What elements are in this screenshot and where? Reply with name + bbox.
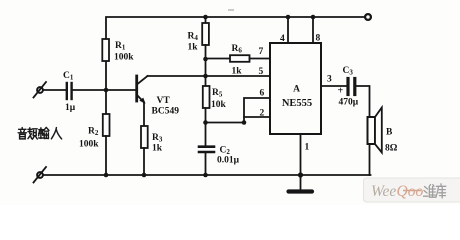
speaker B	[368, 108, 398, 154]
svg-text:8: 8	[316, 34, 321, 44]
svg-text:BC549: BC549	[152, 107, 180, 117]
pin 8	[311, 15, 321, 44]
wire bottom ground rail	[43, 174, 371, 176]
svg-text:6: 6	[260, 89, 265, 99]
svg-text:10k: 10k	[211, 100, 227, 110]
svg-text:C3: C3	[343, 66, 354, 77]
svg-text:5: 5	[259, 67, 264, 77]
node C2 rail	[203, 173, 208, 178]
watermark WeeQoo weiku	[364, 178, 460, 202]
svg-text:C1: C1	[63, 71, 74, 82]
svg-text:R2: R2	[88, 127, 99, 138]
terminal top-right supply	[365, 14, 371, 20]
resistor R3	[141, 103, 163, 176]
capacitor C2	[199, 146, 240, 176]
svg-text:R1: R1	[115, 41, 126, 52]
node rail R4	[203, 15, 208, 20]
node R2 rail	[104, 173, 109, 178]
svg-text:Qoo: Qoo	[397, 183, 424, 200]
wire R4 to R5	[205, 59, 207, 86]
svg-text:1k: 1k	[152, 144, 163, 154]
svg-text:2: 2	[260, 109, 265, 119]
svg-text:8Ω: 8Ω	[385, 144, 398, 154]
node R6 tap	[203, 57, 208, 62]
svg-text:R5: R5	[212, 88, 223, 99]
svg-text:4: 4	[280, 34, 285, 44]
wire top supply rail	[106, 17, 365, 90]
svg-text:7: 7	[259, 47, 264, 57]
svg-text:100k: 100k	[114, 53, 134, 63]
input terminal top	[34, 82, 47, 98]
svg-text:Wee: Wee	[371, 183, 396, 200]
resistor R5	[203, 86, 227, 146]
ground	[289, 175, 313, 192]
input terminal bottom	[34, 167, 47, 183]
node R3 rail	[142, 173, 147, 178]
node pin1 rail	[298, 172, 303, 177]
wire C1 to base	[73, 89, 136, 91]
svg-text:A: A	[293, 85, 300, 95]
svg-text:R4: R4	[188, 32, 199, 43]
pin 4	[280, 15, 290, 44]
pin 3	[321, 75, 346, 87]
label 音频输入 audio input	[18, 127, 61, 139]
node branch corner	[242, 120, 247, 125]
svg-text:470μ: 470μ	[339, 98, 359, 108]
capacitor C3	[338, 66, 359, 108]
svg-text:NE555: NE555	[282, 98, 312, 109]
svg-text:R6: R6	[232, 44, 243, 55]
svg-text:VT: VT	[157, 96, 171, 106]
wire input to C1	[43, 89, 66, 91]
transistor VT BC549	[137, 76, 179, 117]
node R5 bottom	[203, 120, 208, 125]
IC U1 NE555	[270, 43, 321, 134]
resistor R6	[206, 44, 271, 77]
svg-text:3: 3	[327, 75, 332, 85]
svg-text:100k: 100k	[79, 140, 99, 150]
wire C3 to speaker	[357, 86, 370, 117]
svg-text:C2: C2	[220, 146, 231, 157]
svg-text:1μ: 1μ	[65, 103, 76, 113]
svg-text:1: 1	[305, 143, 310, 153]
resistor R1	[102, 39, 134, 63]
node input junction	[104, 88, 109, 93]
wire collector to pin5	[148, 75, 271, 77]
svg-text:+: +	[338, 86, 344, 97]
svg-text:0.01μ: 0.01μ	[217, 156, 240, 166]
svg-text:1k: 1k	[232, 67, 243, 77]
scan speck above rail	[228, 9, 234, 11]
capacitor C1	[63, 71, 76, 113]
wire speaker to rail	[369, 144, 371, 175]
svg-text:B: B	[386, 128, 393, 138]
node pin5 line crossing	[203, 74, 208, 79]
resistor R4	[188, 17, 209, 59]
svg-text:1k: 1k	[188, 43, 199, 53]
resistor R2	[79, 90, 110, 175]
wire pin6 pin2 branch	[206, 98, 271, 123]
svg-text:R3: R3	[152, 133, 163, 144]
pin 1	[301, 134, 310, 175]
